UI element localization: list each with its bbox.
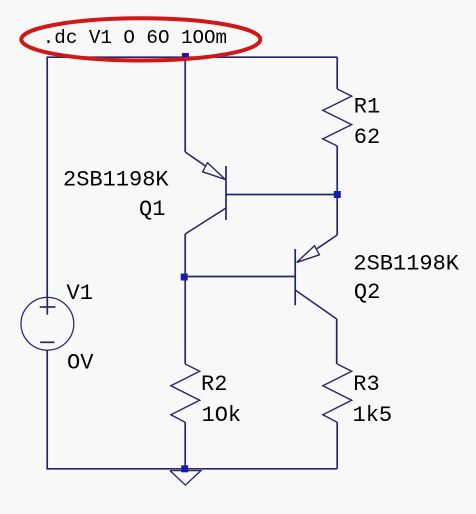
svg-text:62: 62: [354, 125, 380, 150]
svg-text:R3: R3: [353, 372, 379, 397]
svg-text:2SB1198K: 2SB1198K: [353, 252, 459, 277]
svg-text:V1: V1: [67, 281, 93, 306]
svg-text:Q1: Q1: [139, 197, 165, 222]
svg-text:OV: OV: [67, 351, 94, 376]
svg-text:.dc V1 O 6O 1OOm: .dc V1 O 6O 1OOm: [43, 27, 227, 49]
svg-text:R1: R1: [354, 94, 380, 119]
svg-text:Q2: Q2: [354, 280, 380, 305]
svg-text:1Ok: 1Ok: [202, 403, 242, 428]
svg-text:1k5: 1k5: [353, 403, 393, 428]
svg-text:2SB1198K: 2SB1198K: [63, 168, 169, 193]
svg-text:R2: R2: [201, 372, 227, 397]
